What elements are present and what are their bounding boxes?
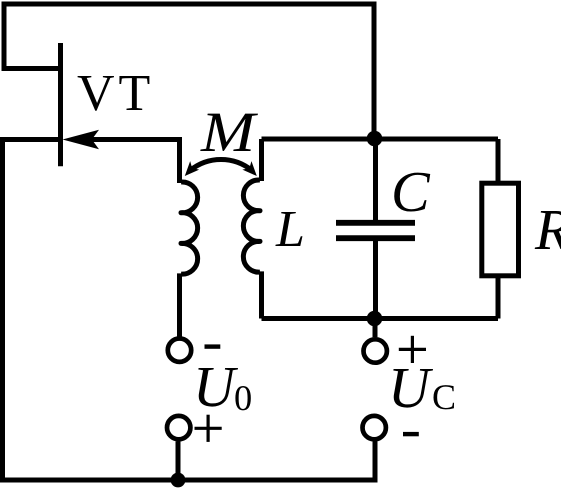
mutual coupling arrow M [190,159,252,170]
svg-text:C: C [391,159,431,224]
terminal: U0 minus (open circle) [168,339,191,362]
arrowhead right of coupling arrow [242,161,261,180]
inductor: left winding of transformer [181,182,198,274]
inductor L: right winding of transformer [243,180,260,272]
wire: left winding bottom to U0 - terminal [177,273,182,336]
polarity sign: U0 plus [195,415,222,442]
wire: U0 plus terminal stem to bottom rail [176,442,181,481]
transistor VT emitter arrowhead [63,130,100,150]
junction: node A (top rail / collector drop) [367,131,383,147]
svg-text:C: C [432,377,456,417]
wire: emitter left loop (left wire, left outer vertical, bottom rail, rise to UC - terminal) [3,140,376,481]
svg-text:R: R [534,197,561,262]
wire: tank bottom rail [262,316,499,321]
wire: node B to UC + terminal [373,319,378,338]
polarity sign: UC plus [399,336,426,363]
terminal: U0 plus (open circle) [167,416,190,439]
svg-text:U: U [388,355,434,420]
svg-text:L: L [275,201,305,258]
svg-text:VT: VT [77,65,154,122]
polarity sign: U0 minus [205,344,221,348]
wire: tank top rail [262,137,499,142]
resistor R body [482,183,519,276]
arrowhead left of coupling arrow [180,161,199,180]
svg-text:M: M [200,101,259,164]
svg-text:U: U [193,354,239,419]
terminal: UC plus (open circle) [364,339,387,362]
wire: resistor top lead [496,139,501,184]
transistor VT base bar [58,43,63,166]
polarity sign: UC minus [403,432,419,436]
junction: bottom rail / U0 stem [171,473,186,488]
wire: resistor bottom lead [496,276,501,319]
capacitor C plates [336,220,415,226]
wire: right winding bottom lead [259,271,264,318]
wire: capacitor bottom lead [373,241,378,319]
wire: collector loop (base lead, left vertical, top rail, right drop to node A) [4,4,374,139]
wire: capacitor top lead [373,139,378,220]
terminal: UC minus (open circle) [363,416,386,439]
svg-text:0: 0 [234,378,252,418]
junction: node B (bottom rail / UC stem) [367,311,383,327]
wire: right winding top lead [259,139,264,181]
wire: emitter to left winding top [90,140,180,184]
